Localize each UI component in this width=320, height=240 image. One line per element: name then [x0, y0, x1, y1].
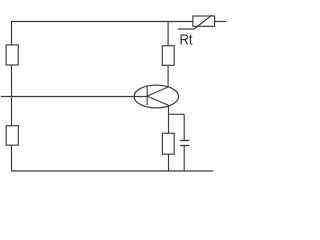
wire top horizontal	[11, 21, 193, 23]
node junction wire at x=168	[167, 22, 169, 46]
thermistor Rt body	[193, 16, 215, 26]
wire bottom horizontal	[11, 170, 213, 172]
thermistor Rt diagonal	[194, 15, 212, 29]
wire thermistor right	[215, 21, 226, 23]
resistor R3	[162, 46, 174, 66]
transistor Q1 base bar	[146, 87, 148, 105]
resistor R2	[6, 126, 18, 146]
thermistor Rt foot	[178, 28, 194, 30]
transistor Q1 collector lead	[147, 87, 168, 96]
wire capacitor bottom vertical	[183, 146, 185, 172]
resistor R1	[6, 45, 18, 65]
capacitor C1 bottom plate	[180, 145, 189, 147]
wire branch to capacitor horizontal	[169, 113, 185, 115]
resistor R4	[162, 133, 174, 154]
capacitor C1 top plate	[180, 140, 189, 142]
transistor Q1 body	[134, 85, 179, 108]
wire capacitor top vertical	[183, 114, 185, 140]
wire emitter vertical	[168, 105, 170, 133]
svg-text:Rt: Rt	[180, 31, 194, 48]
wire left vertical middle segment	[11, 65, 13, 126]
wire below R4 vertical	[168, 154, 170, 171]
transistor Q1 emitter lead	[147, 96, 169, 105]
wire left vertical upper segment	[11, 21, 13, 45]
wire middle horizontal to base	[1, 96, 147, 98]
wire left vertical lower segment	[11, 145, 13, 171]
wire collector vertical	[167, 65, 169, 87]
